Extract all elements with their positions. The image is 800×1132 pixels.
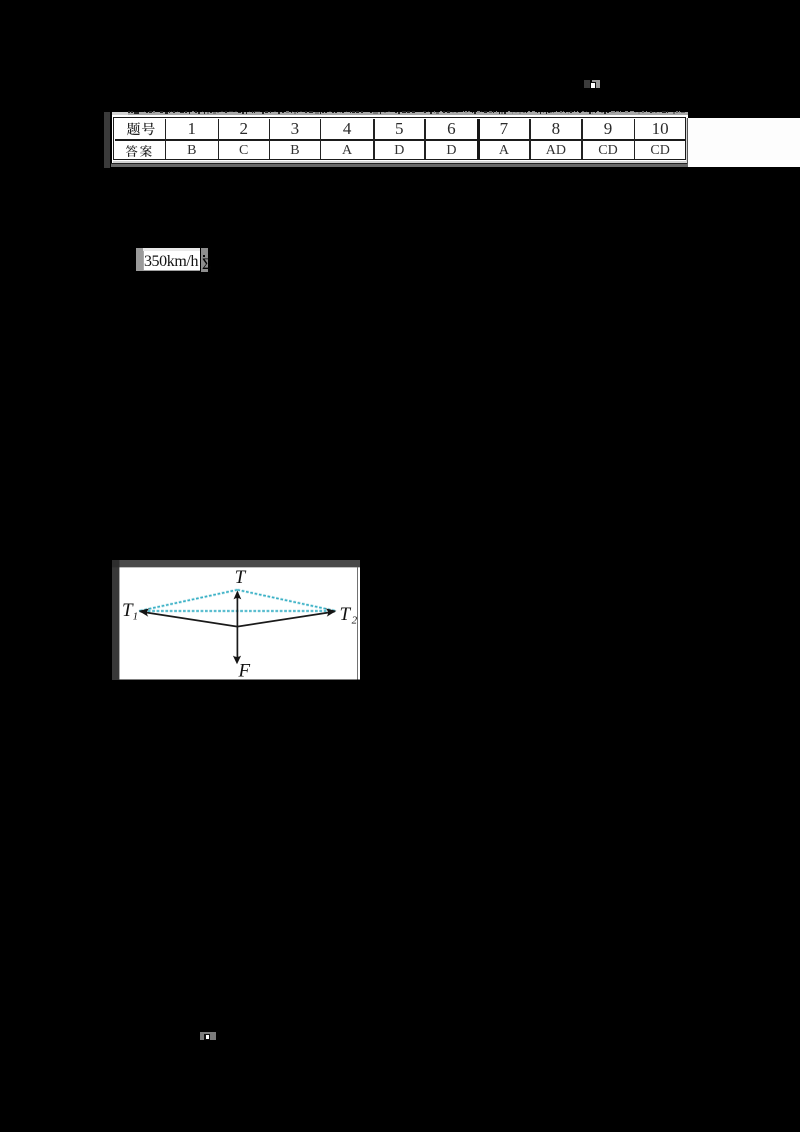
- table bottom shadow bar: [111, 164, 688, 167]
- answer cell: CD: [582, 144, 634, 158]
- labels: [122, 567, 358, 681]
- table image right thin edge line: [686, 118, 689, 164]
- diagram left gray border bar: [112, 567, 119, 680]
- clipped sigma glyph remnant: [202, 257, 214, 273]
- answer cell: B: [166, 144, 218, 158]
- diagram right thin edge line: [356, 567, 359, 679]
- formula box top light edge: [143, 248, 201, 250]
- arrowhead of vector T1 (left): [139, 608, 150, 616]
- image placeholder icon (bottom left): gray pane with white page glyph: [200, 1032, 216, 1040]
- svg-text:1: 1: [133, 611, 139, 623]
- table image bottom inner margin (light gray): [113, 161, 688, 163]
- dark notch on right highlight column: [203, 255, 205, 257]
- vertical shaft: T up / F down: [236, 592, 238, 661]
- arrowhead of vector T (up): [234, 591, 242, 600]
- question number cell: 2: [218, 120, 270, 137]
- table outer border: [113, 117, 686, 161]
- svg-text:2: 2: [352, 615, 358, 627]
- clipped text line above table: gray highlight band with dark glyph-bottom marks: [112, 112, 688, 115]
- image placeholder icon (top right): dark pane, light pane, white page glyph: [584, 80, 590, 88]
- question number cell: 7: [478, 120, 530, 137]
- arrowhead of vector F (down): [233, 656, 241, 665]
- question number cell: 4: [321, 120, 373, 137]
- table left shadow bar: [104, 112, 110, 168]
- answer cell: A: [478, 144, 530, 158]
- formula right gray highlight column: [201, 248, 208, 272]
- question number cell: 9: [582, 120, 634, 137]
- table row divider line: [115, 139, 685, 141]
- vector shafts T1 and T2 (V shape from junction): [141, 612, 335, 627]
- arrowhead of vector T2 (right): [325, 608, 336, 616]
- answer cell: D: [425, 144, 477, 158]
- formula box bottom gray edge: [143, 270, 201, 271]
- answer cell: D: [373, 144, 425, 158]
- dashed line T apex to T2: [237, 590, 336, 611]
- answer cell: CD: [634, 144, 686, 158]
- answer cell: B: [269, 144, 321, 158]
- question number cell: 10: [634, 120, 686, 137]
- svg-text:F: F: [238, 660, 251, 680]
- question number cell: 1: [166, 120, 218, 137]
- dashed line T1 to T2: [139, 610, 336, 612]
- header cell text 答案: [126, 143, 158, 160]
- answer cell: AD: [530, 144, 582, 158]
- formula left gray highlight square: [136, 248, 143, 270]
- question number cell: 3: [269, 120, 321, 137]
- svg-text:T: T: [340, 604, 352, 625]
- solid vector shafts: [141, 592, 335, 661]
- answer table white background: [112, 115, 688, 163]
- question number cell: 6: [425, 120, 477, 137]
- diagram top gray border bar: [112, 560, 360, 567]
- question number cell: 8: [530, 120, 582, 137]
- header cell text 题号: [126, 120, 158, 137]
- diagram white background: [119, 567, 360, 679]
- answer cell: C: [218, 144, 270, 158]
- formula text 350km/h: [143, 254, 200, 270]
- diagram top-left corner square: [112, 560, 119, 567]
- dashed line T1 to T apex: [139, 590, 237, 611]
- dashed construction lines glow underlay: [139, 590, 336, 611]
- formula box left gray edge: [143, 251, 144, 271]
- svg-text:T: T: [235, 567, 247, 588]
- force diagram image (T, T1, T2, F vectors): [112, 560, 360, 680]
- formula white box: [143, 248, 201, 271]
- white highlight strip to the right of table: [688, 118, 800, 167]
- question number cell: 5: [373, 120, 425, 137]
- table image right inner margin (light gray): [686, 118, 687, 163]
- table column divider lines: [165, 119, 166, 159]
- dashed parallelogram construction lines (teal): [139, 590, 336, 611]
- answer cell: A: [321, 144, 373, 158]
- table bottom edge dark line: [111, 162, 688, 165]
